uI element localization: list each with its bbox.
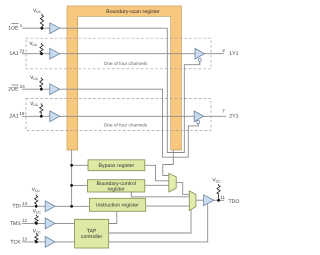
- svg-text:TMS: TMS: [10, 221, 21, 227]
- input buffer 2A1: [50, 111, 60, 122]
- svg-text:19: 19: [19, 111, 25, 116]
- svg-text:1A1: 1A1: [9, 51, 18, 57]
- svg-text:One of four channels: One of four channels: [104, 122, 148, 127]
- wire 2A1 row through to 2Y1 output: [22, 115, 226, 117]
- svg-text:1OE: 1OE: [8, 26, 19, 32]
- bypass register: [88, 160, 145, 171]
- wire branch to boundary-control register: [72, 184, 88, 186]
- resistor pullup TDO: [217, 184, 220, 200]
- svg-text:controller: controller: [81, 234, 103, 240]
- input buffer 2OE: [50, 84, 60, 95]
- wire instruction register out to mux M2: [146, 205, 190, 207]
- svg-text:Boundary-scan register: Boundary-scan register: [106, 9, 160, 15]
- node TDI-bcr branch: [70, 184, 73, 187]
- node TDO pullup: [217, 199, 220, 202]
- boundary-scan register (orange U shape): [67, 6, 182, 150]
- resistor pullup 2OE: [40, 78, 43, 90]
- wire 1OE row + enable loop to 1Y1 bubble: [22, 28, 200, 152]
- wire TDI fanout vertical: [71, 150, 73, 206]
- node 1A1 pullup: [40, 52, 43, 55]
- svg-text:23: 23: [19, 49, 25, 54]
- mux M2: [189, 191, 196, 211]
- svg-text:11: 11: [220, 195, 225, 200]
- node 2OE pullup: [40, 88, 43, 91]
- svg-text:One of four channels: One of four channels: [104, 61, 148, 66]
- resistor pullup 2A1: [40, 103, 43, 116]
- wire BSR serial out to mux M1: [163, 150, 174, 176]
- mux M1: [169, 173, 176, 192]
- boundary-control register: [88, 180, 145, 192]
- wire boundary-control stub to mux M2: [131, 192, 189, 197]
- instruction register: [89, 198, 145, 211]
- svg-text:Instruction register: Instruction register: [96, 203, 139, 209]
- svg-text:TCK: TCK: [10, 239, 21, 245]
- wire instruction register to TAP controller: [109, 211, 117, 223]
- wire mux M2 out to TDO buffer: [196, 199, 204, 201]
- wire 2OE row + enable loop to 2Y1 bubble: [22, 89, 198, 157]
- input buffer TDI: [45, 201, 55, 212]
- input buffer 1OE: [50, 23, 60, 34]
- resistor pullup TCK: [35, 233, 38, 242]
- enable bubble 1Y1: [198, 58, 201, 61]
- wire bypass register out to mux M1: [145, 165, 169, 181]
- svg-text:TDI: TDI: [12, 204, 20, 210]
- svg-text:12: 12: [22, 218, 28, 223]
- wire TDO output: [214, 199, 224, 201]
- svg-text:24: 24: [20, 84, 26, 89]
- node TCK pullup: [35, 241, 38, 244]
- wire 1Y1 bubble stub: [199, 61, 201, 64]
- svg-text:2Y1: 2Y1: [229, 113, 238, 119]
- svg-text:2OE: 2OE: [8, 87, 19, 93]
- dashed box channel group 1: [26, 38, 211, 69]
- wire TCK row: [22, 241, 75, 243]
- node 2A1 pullup: [40, 115, 43, 118]
- svg-text:14: 14: [22, 201, 28, 206]
- svg-text:register: register: [108, 186, 126, 192]
- wire branch to bypass register: [72, 164, 88, 166]
- output buffer TDO: [204, 195, 214, 206]
- svg-text:Bypass register: Bypass register: [99, 163, 135, 169]
- wire 2Y1 bubble stub: [197, 124, 199, 126]
- resistor pullup 1A1: [40, 43, 43, 54]
- resistor pullup TMS: [35, 215, 38, 224]
- node TDI pullup: [35, 205, 38, 208]
- wire 1A1 row through to 1Y1 output: [22, 53, 224, 55]
- wire TAP select to mux M2: [109, 210, 191, 233]
- wire TAP enable to TDO buffer: [109, 204, 208, 242]
- resistor pullup TDI: [35, 195, 38, 207]
- wire mux M1 out to mux M2: [176, 182, 189, 194]
- TAP controller: [75, 219, 109, 248]
- node 1OE pullup: [41, 27, 44, 30]
- wire TDI row: [22, 205, 89, 207]
- output buffer 1Y1: [195, 48, 204, 59]
- input buffer TCK: [45, 237, 55, 248]
- svg-text:1Y1: 1Y1: [229, 51, 238, 57]
- node TMS pullup: [35, 222, 38, 225]
- svg-text:13: 13: [22, 237, 28, 242]
- resistor pullup 1OE: [40, 14, 43, 29]
- node TDI-bypass branch: [70, 164, 73, 167]
- input buffer 1A1: [50, 48, 60, 59]
- dashed box channel group 2: [26, 99, 211, 131]
- wire boundary-control register out to mux M1: [145, 184, 169, 186]
- enable bubble 2Y1: [197, 121, 200, 124]
- svg-text:TDO: TDO: [229, 199, 240, 205]
- node TDI-instr branch: [70, 205, 73, 208]
- input buffer TMS: [45, 218, 55, 229]
- svg-text:2A1: 2A1: [9, 114, 18, 120]
- output buffer 2Y1: [194, 111, 203, 122]
- wire TMS row: [22, 222, 75, 224]
